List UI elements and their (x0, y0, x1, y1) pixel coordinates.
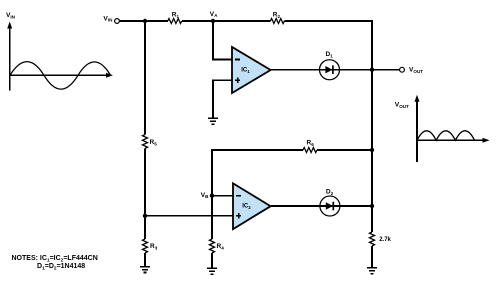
resistor R4 (210, 239, 215, 253)
wire lower node down to R3 (144, 216, 146, 239)
svg-text:IC2: IC2 (242, 204, 251, 210)
graph VOUT vertical axis arrowhead (415, 95, 420, 102)
wire VB down to R4 (211, 196, 213, 239)
wire output bus to 2.7k (371, 70, 373, 232)
diode D1 (320, 60, 340, 80)
graph VOUT horizontal axis (417, 139, 485, 141)
wire IC2 output to D2 and bus (271, 205, 372, 207)
terminal VIN (115, 19, 120, 24)
wire output node to VOUT terminal (372, 69, 400, 71)
junction node VA (211, 19, 215, 23)
resistor R3 (143, 239, 148, 253)
junction D2 at bus (370, 204, 374, 208)
wire VIN terminal to node junction (119, 20, 167, 22)
wire IC1 non-inverting input to ground (213, 80, 232, 118)
graph VOUT rectified waveform (417, 131, 475, 141)
resistor R1 (168, 19, 182, 24)
svg-text:IC1: IC1 (241, 68, 250, 74)
wire VA to IC1 inverting input (213, 21, 232, 60)
resistor R2 (270, 19, 284, 24)
wire R6 to output bus (317, 149, 372, 151)
op-amp IC1 (232, 47, 271, 93)
junction R6 at bus (370, 148, 374, 152)
ground 2.7k (367, 268, 377, 274)
op-amp IC2 (233, 183, 271, 229)
wire R2 to output bus corner (284, 21, 372, 69)
graph VIN sine waveform (10, 62, 111, 90)
ground IC1 non-inverting input (208, 118, 218, 124)
ground R3 (140, 267, 150, 273)
wire VB to IC2 inverting input (212, 195, 233, 197)
wire input node down to R5 (144, 21, 146, 135)
svg-text:2.7k: 2.7k (379, 237, 391, 243)
wire R5 to lower node (144, 149, 146, 216)
wire R1 to node VA (182, 20, 271, 22)
graph VIN horizontal axis (10, 74, 109, 76)
resistor 2.7k (370, 232, 375, 246)
junction node VB (210, 193, 214, 197)
diode D2 (320, 196, 340, 216)
wire R3 to ground (144, 253, 146, 267)
terminal VOUT (400, 67, 405, 72)
graph VIN vertical axis (9, 26, 11, 91)
graph VOUT vertical axis (416, 99, 418, 162)
wire 2.7k to ground (371, 246, 373, 268)
resistor R5 (143, 135, 148, 149)
ground R4 (207, 268, 217, 274)
wire IC1 output to D1 and output bus (271, 69, 372, 71)
graph VIN vertical axis arrowhead (7, 22, 12, 29)
graph VIN horizontal axis arrowhead (106, 73, 113, 78)
wire lower node to IC2 non-inverting input (145, 215, 233, 217)
resistor R6 (303, 148, 317, 153)
wire R4 to ground (211, 253, 213, 268)
graph VOUT horizontal axis arrowhead (483, 138, 490, 143)
junction lower node (143, 214, 147, 218)
junction input node (143, 19, 147, 23)
junction output node on bus (370, 68, 374, 72)
wire R6 feedback from IC2 inverting branch (212, 150, 303, 196)
